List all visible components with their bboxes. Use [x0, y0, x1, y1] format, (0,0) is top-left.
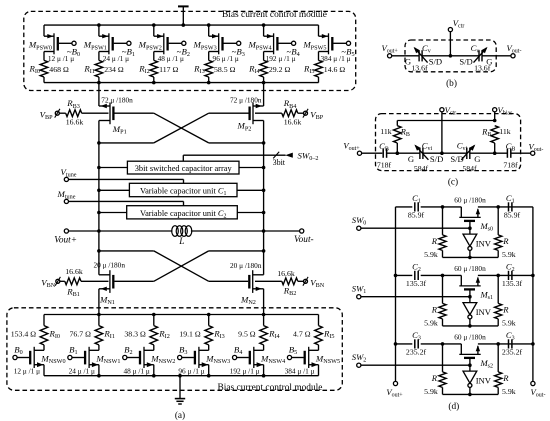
wire Vout+ to varactor b left — [392, 55, 419, 57]
svg-text:72 μ /180n: 72 μ /180n — [230, 96, 262, 105]
wire bus to Vout- — [264, 230, 300, 232]
wire SW1 to gate node — [361, 295, 472, 299]
label MN1 — [99, 294, 115, 306]
label 718f right — [503, 161, 518, 170]
label 5.9k left stage 2 — [424, 387, 438, 396]
label 11k right — [499, 127, 511, 136]
label size 384 μ /1 μ — [321, 54, 351, 63]
svg-text:5.9k: 5.9k — [502, 387, 516, 396]
switched capacitor branch 1 — [396, 275, 533, 286]
label MPSW1 — [83, 40, 107, 52]
wire Vout+ to CB left — [362, 152, 383, 154]
svg-text:16.6k: 16.6k — [66, 118, 84, 127]
label ~B1 — [122, 47, 135, 59]
svg-text:G: G — [405, 56, 411, 66]
junction node B — [496, 205, 500, 209]
svg-text:(a): (a) — [175, 410, 185, 421]
svg-text:Bias current control module: Bias current control module — [222, 10, 327, 20]
junction right bus d — [531, 274, 535, 278]
label value 76.7 Ω — [70, 329, 92, 338]
label 5.9k right stage 1 — [502, 318, 516, 327]
label RB1 — [66, 287, 80, 299]
label MNSW3 — [205, 354, 230, 366]
label 16.6k RB3 — [66, 118, 84, 127]
terminal Vout- b — [507, 43, 522, 58]
resistor R right 5.9k stage 2 — [495, 344, 502, 395]
label C3 left — [412, 330, 421, 342]
svg-text:234 Ω: 234 Ω — [104, 65, 124, 74]
label RI0 — [28, 64, 40, 76]
label MP2 — [237, 121, 252, 133]
terminal Vout- c — [529, 141, 544, 155]
wire bias rail c — [397, 119, 496, 123]
svg-text:3bit: 3bit — [273, 158, 286, 167]
transistor MNSW0 NMOS switch — [13, 345, 44, 376]
label size bottom 96 μ /1 μ — [178, 366, 204, 375]
resistor R right 5.9k stage 1 — [495, 275, 502, 326]
wire varactor to CB right — [470, 151, 508, 155]
wire Mtune to C2 box top — [69, 201, 184, 205]
wire bus to 3bit box left — [97, 166, 127, 170]
junction left bus d — [394, 342, 398, 346]
svg-text:Bias current control module: Bias current control module — [218, 383, 323, 393]
junction node A — [441, 274, 445, 278]
label RB right — [481, 127, 491, 139]
transistor MNSW1 NMOS switch — [68, 345, 99, 376]
wire right bus d — [532, 207, 534, 382]
wire SW0 to gate node — [361, 226, 472, 230]
resistor RI4 bottom module — [260, 326, 268, 345]
label 16.6k RB1 — [65, 267, 83, 276]
wire rail to RI2 bottom — [153, 315, 155, 326]
inverter INV stage 1 — [463, 297, 477, 326]
resistor RI2 bottom module — [150, 326, 158, 345]
svg-text:S/D: S/D — [429, 56, 442, 66]
svg-text:24 μ /1 μ: 24 μ /1 μ — [103, 54, 129, 63]
svg-text:(d): (d) — [448, 401, 459, 412]
wire between varactors b — [422, 55, 479, 57]
junction drain rail x=154 — [152, 81, 156, 85]
label Ms1 — [480, 290, 494, 302]
svg-text:96 μ /1 μ: 96 μ /1 μ — [178, 366, 204, 375]
resistor RI5 bottom module — [315, 326, 323, 345]
junction left bus d — [394, 274, 398, 278]
svg-text:9.5 Ω: 9.5 Ω — [238, 329, 256, 338]
switched capacitor branch 2 — [396, 344, 533, 355]
wire SW control into 3bit box — [183, 152, 292, 161]
svg-text:29.2 Ω: 29.2 Ω — [269, 65, 291, 74]
svg-text:13.6f: 13.6f — [411, 64, 428, 73]
label 3bit slash — [273, 158, 286, 167]
bottom bias current control module box — [7, 308, 342, 391]
svg-text:R: R — [502, 373, 509, 383]
transistor MN1 cross-coupled NMOS — [99, 270, 113, 314]
wire INV output rail stage 0 — [443, 256, 499, 260]
inductor L — [99, 226, 266, 237]
wire resistor to rail — [263, 77, 265, 83]
label 235.2f right — [502, 348, 523, 357]
junction drain nodes NMOS — [97, 249, 265, 253]
label RI2 — [138, 64, 150, 76]
label SW0-2 — [298, 150, 319, 162]
resistor RI3 top module — [205, 60, 213, 77]
svg-text:13.6f: 13.6f — [474, 64, 491, 73]
varactor Cv right — [474, 47, 488, 63]
junction ground stem — [178, 374, 182, 378]
label 584f left — [414, 164, 429, 173]
svg-text:192 μ /1 μ: 192 μ /1 μ — [230, 366, 260, 375]
svg-text:24 μ /1 μ: 24 μ /1 μ — [69, 366, 95, 375]
box variable capacitor unit C1 — [129, 183, 237, 197]
label RI5 bottom — [323, 329, 335, 341]
junction node A — [441, 205, 445, 209]
label Cv left — [422, 43, 431, 55]
terminal Vout+ d — [386, 381, 403, 398]
label Cvi right — [457, 140, 468, 152]
wire bottom module drain rail — [44, 314, 319, 316]
label R right stage 0 — [502, 236, 509, 246]
label size 48 μ /1 μ — [158, 54, 184, 63]
resistor RB1 16.6k — [60, 278, 109, 285]
label RB3 — [66, 98, 80, 110]
varactor Cvi right 584f — [461, 145, 475, 160]
label 11k left — [380, 127, 392, 136]
resistor RI0 bottom module — [40, 326, 48, 345]
junction bottom top rail x=209 — [207, 313, 211, 317]
wire NMOS cross-coupling X — [99, 251, 264, 281]
transistor MNSW5 NMOS switch — [287, 345, 318, 376]
terminal Vctr c — [440, 105, 456, 117]
transistor MP1 cross-coupled PMOS — [99, 103, 114, 143]
svg-text:(b): (b) — [446, 78, 457, 89]
label INV stage 1 — [476, 307, 492, 317]
label B5 — [289, 345, 297, 357]
label MN2 size 20u/180n — [230, 261, 262, 270]
terminal VBP right — [303, 109, 324, 121]
svg-text:192 μ /1 μ: 192 μ /1 μ — [266, 54, 296, 63]
wire SW2 to gate node — [361, 363, 472, 367]
svg-text:85.9f: 85.9f — [504, 211, 521, 220]
label CB right — [506, 141, 516, 153]
svg-text:R: R — [502, 304, 509, 314]
label CB left — [379, 141, 389, 153]
svg-text:R: R — [431, 236, 438, 246]
resistor RB right 11k — [491, 126, 499, 154]
svg-text:S/D: S/D — [459, 56, 472, 66]
wire resistor to rail — [153, 77, 155, 83]
label C1 right — [506, 193, 515, 205]
svg-text:48 μ /1 μ: 48 μ /1 μ — [158, 54, 184, 63]
svg-text:117 Ω: 117 Ω — [159, 65, 178, 74]
terminal Vout+ b — [381, 43, 398, 58]
wire bus to C2 box left — [97, 211, 127, 215]
section (a) main VCO schematic — [7, 6, 356, 421]
label ~B0 — [67, 47, 80, 59]
transistor MPSW4 PMOS switch — [264, 25, 296, 60]
label INV stage 2 — [476, 375, 492, 385]
label size bottom 24 μ /1 μ — [69, 366, 95, 375]
label 5.9k right stage 2 — [502, 387, 516, 396]
capacitor C1 left 85.9f — [415, 202, 418, 211]
terminal Vbias c — [493, 105, 513, 117]
transistor MNSW4 NMOS switch — [233, 345, 264, 376]
transistor MN2 cross-coupled NMOS — [249, 270, 263, 314]
label ~B5 — [341, 47, 354, 59]
wire rail to RI0 bottom — [43, 315, 45, 326]
label value 117 Ω — [159, 65, 178, 74]
wire resistor to rail — [318, 77, 320, 83]
svg-text:14.6 Ω: 14.6 Ω — [324, 65, 346, 74]
wire rail to RI3 bottom — [208, 315, 210, 326]
label RI3 bottom — [213, 329, 225, 341]
resistor RB3 16.6k — [59, 110, 108, 117]
switched capacitor branch 0 — [396, 207, 533, 218]
junction bottom source rail x=99 — [97, 374, 101, 378]
label RI5 — [303, 64, 315, 76]
terminal Mtune — [57, 189, 76, 204]
svg-text:48 μ /1 μ: 48 μ /1 μ — [124, 366, 150, 375]
terminal Vctr b — [448, 18, 464, 32]
svg-text:584f: 584f — [414, 164, 429, 173]
label B1 — [69, 345, 77, 357]
label R left stage 2 — [431, 373, 438, 383]
wire CB to Vout- c — [511, 152, 531, 154]
label RB2 — [283, 286, 297, 298]
terminal Vout- of section a — [294, 229, 314, 245]
label RI1 — [83, 64, 95, 76]
label value 9.5 Ω — [238, 329, 256, 338]
svg-text:19.1 Ω: 19.1 Ω — [179, 329, 201, 338]
svg-text:72 μ /180n: 72 μ /180n — [101, 96, 133, 105]
label value 19.1 Ω — [179, 329, 201, 338]
junction drain rail x=209 — [207, 81, 211, 85]
label MPSW0 — [28, 40, 52, 52]
wire Vctr stem b — [449, 32, 453, 58]
wire between varactors c — [423, 152, 467, 154]
svg-text:58.5 Ω: 58.5 Ω — [214, 65, 236, 74]
resistor R left 5.9k stage 1 — [439, 275, 446, 326]
label value 29.2 Ω — [269, 65, 291, 74]
svg-text:Variable capacitor unit C2: Variable capacitor unit C2 — [140, 209, 227, 220]
label value 4.7 Ω — [293, 329, 311, 338]
junction top rail x=209 — [207, 23, 211, 27]
resistor R left 5.9k stage 0 — [439, 207, 446, 258]
junction bottom source rail x=154 — [152, 374, 156, 378]
resistor RI4 top module — [260, 60, 268, 77]
svg-text:20 μ /180n: 20 μ /180n — [230, 261, 262, 270]
label ~B2 — [177, 47, 190, 59]
svg-text:718f: 718f — [377, 161, 392, 170]
label MNSW0 — [40, 354, 65, 366]
svg-text:60 μ /180n: 60 μ /180n — [454, 332, 486, 341]
inverter INV stage 2 — [463, 365, 477, 394]
resistor RI1 top module — [95, 60, 103, 77]
capacitor CB left 718f — [383, 149, 386, 158]
label MP2 size 72u/180n — [230, 96, 262, 105]
label B0 — [14, 345, 22, 357]
capacitor C3 right 235.2f — [509, 339, 512, 348]
terminal SW0 — [352, 215, 366, 230]
terminal Vout+ c — [343, 140, 361, 155]
transistor Ms1 switch NMOS — [459, 277, 480, 297]
label G b-right — [486, 56, 492, 66]
box variable capacitor unit C2 — [127, 206, 238, 220]
label value 38.3 Ω — [124, 329, 146, 338]
label size 96 μ /1 μ — [213, 54, 239, 63]
label MPSW4 — [247, 40, 271, 52]
svg-text:Vout+: Vout+ — [54, 235, 77, 245]
svg-text:235.2f: 235.2f — [502, 348, 523, 357]
wire INV output rail stage 2 — [443, 393, 499, 397]
label B3 — [179, 345, 187, 357]
label RB4 — [283, 98, 297, 110]
svg-text:5.9k: 5.9k — [424, 387, 438, 396]
svg-text:G: G — [408, 154, 414, 164]
junction bottom top rail x=154 — [152, 313, 156, 317]
svg-text:60 μ /180n: 60 μ /180n — [454, 195, 486, 204]
transistor MNSW3 NMOS switch — [178, 345, 209, 376]
label MP1 — [112, 124, 127, 136]
svg-text:235.2f: 235.2f — [406, 348, 427, 357]
wire PMOS cross-coupling X — [99, 113, 264, 143]
label 584f right — [462, 164, 477, 173]
wire C1 box to bus right — [237, 189, 265, 193]
label MPSW5 — [302, 40, 326, 52]
wire top module drain rail — [44, 82, 319, 84]
junction node A — [441, 342, 445, 346]
svg-text:Vout-: Vout- — [294, 235, 314, 245]
power supply VDD — [178, 6, 189, 27]
label size 192 μ /1 μ — [266, 54, 296, 63]
svg-text:L: L — [178, 237, 184, 247]
wire resistor to rail — [98, 77, 100, 83]
varactor Cv left — [414, 47, 428, 63]
resistor RB left 11k — [394, 121, 402, 154]
label RI1 bottom — [103, 329, 115, 341]
label size bottom 12 μ /1 μ — [14, 366, 40, 375]
svg-text:16.6k: 16.6k — [284, 118, 302, 127]
transistor MPSW5 PMOS switch — [319, 25, 351, 60]
label (d) — [448, 401, 459, 412]
label R right stage 2 — [502, 373, 509, 383]
label G b-left — [405, 56, 411, 66]
label MPSW2 — [138, 40, 162, 52]
label C1 left — [412, 193, 421, 205]
junction right bus d — [531, 342, 535, 346]
junction drain rail x=99 — [97, 81, 101, 85]
label 5.9k right stage 0 — [502, 250, 516, 259]
terminal Vtune — [61, 167, 77, 182]
label (c) — [448, 177, 458, 188]
junction node B — [496, 342, 500, 346]
section (b) coarse varactor cell — [381, 18, 521, 89]
label R left stage 1 — [431, 304, 438, 314]
svg-text:11k: 11k — [380, 127, 392, 136]
svg-text:4.7 Ω: 4.7 Ω — [293, 329, 311, 338]
label value 468 Ω — [49, 65, 69, 74]
label MNSW1 — [95, 354, 120, 366]
resistor RI2 top module — [150, 60, 158, 77]
label (b) — [446, 78, 457, 89]
svg-text:60 μ /180n: 60 μ /180n — [454, 264, 486, 273]
svg-text:G: G — [474, 154, 480, 164]
label 5.9k left stage 1 — [424, 318, 438, 327]
label 85.9f left — [408, 211, 425, 220]
ground symbol — [175, 376, 185, 404]
label MP1 size 72u/180n — [101, 96, 133, 105]
varactor Cvi left 584f — [414, 145, 428, 160]
label MPSW3 — [193, 40, 217, 52]
label INV stage 0 — [476, 238, 492, 248]
label MN1 size 20u/180n — [94, 261, 126, 270]
label B4 — [234, 345, 242, 357]
label L — [178, 237, 184, 247]
capacitor C3 left 235.2f — [415, 339, 418, 348]
junction top rail x=99 — [97, 23, 101, 27]
top module title — [222, 10, 327, 20]
label C2 right — [506, 261, 515, 273]
svg-text:135.3f: 135.3f — [406, 279, 427, 288]
svg-text:R: R — [431, 373, 438, 383]
wire CB to varactor c left — [386, 151, 420, 155]
svg-text:INV: INV — [476, 375, 492, 385]
svg-text:S/D: S/D — [430, 154, 443, 164]
wire rail to RI5 bottom — [318, 315, 320, 326]
label Cvi left — [422, 140, 433, 152]
resistor R left 5.9k stage 2 — [439, 344, 446, 395]
capacitor C2 left 135.3f — [415, 271, 418, 280]
wire INV output rail stage 1 — [443, 324, 499, 328]
label 718f left — [377, 161, 392, 170]
wire Vbias stem c — [494, 112, 496, 121]
label B2 — [124, 345, 132, 357]
box section b — [405, 40, 496, 72]
transistor MPSW2 PMOS switch — [154, 25, 186, 60]
svg-text:12 μ /1 μ: 12 μ /1 μ — [48, 54, 74, 63]
top bias current control module box — [24, 11, 356, 90]
bottom module title — [218, 383, 323, 393]
svg-text:76.7 Ω: 76.7 Ω — [70, 329, 92, 338]
svg-text:85.9f: 85.9f — [408, 211, 425, 220]
svg-text:20 μ /180n: 20 μ /180n — [94, 261, 126, 270]
label MNSW2 — [150, 354, 175, 366]
wire C2 box to bus right — [237, 211, 265, 215]
label RI0 bottom — [49, 329, 61, 341]
label MNSW5 — [315, 354, 340, 366]
svg-text:5.9k: 5.9k — [502, 318, 516, 327]
wire varactor to Vout- b — [482, 55, 511, 57]
terminal SW1 — [352, 284, 366, 299]
svg-text:S/D: S/D — [450, 154, 463, 164]
svg-text:584f: 584f — [462, 164, 477, 173]
svg-text:3bit switched capacitor array: 3bit switched capacitor array — [135, 164, 233, 173]
label 16.6k RB4 — [284, 118, 302, 127]
label 135.3f right — [502, 279, 523, 288]
resistor RB4 16.6k — [255, 110, 303, 117]
section (c) fine varactor cell — [343, 105, 543, 188]
svg-text:12 μ /1 μ: 12 μ /1 μ — [14, 366, 40, 375]
label size 12 μ /1 μ — [48, 54, 74, 63]
label S/D b-right — [459, 56, 472, 66]
label value 234 Ω — [104, 65, 124, 74]
label Cv right — [471, 43, 480, 55]
junction top rail x=154 — [152, 23, 156, 27]
transistor MPSW3 PMOS switch — [209, 25, 241, 60]
wire resistor to rail — [43, 77, 45, 83]
capacitor C2 right 135.3f — [509, 271, 512, 280]
svg-text:16.6k: 16.6k — [277, 269, 295, 278]
label RI4 — [248, 64, 260, 76]
